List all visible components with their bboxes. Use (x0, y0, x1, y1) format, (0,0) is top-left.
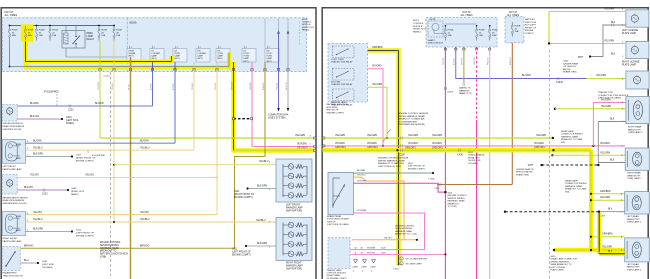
svg-text:S416: S416 (551, 256, 557, 258)
svg-text:VIO/GRN: VIO/GRN (601, 100, 611, 102)
svg-text:PARK/STOP/: PARK/STOP/ (627, 218, 640, 221)
svg-text:2: 2 (362, 270, 363, 272)
svg-text:FLOW/INTAKE AIR: FLOW/INTAKE AIR (398, 120, 417, 123)
svg-text:WIRING HARNESS, NEAR: WIRING HARNESS, NEAR (398, 115, 425, 118)
svg-text:YEL/GRN: YEL/GRN (601, 106, 611, 108)
svg-text:CONNECTOR WIRING: CONNECTOR WIRING (561, 134, 583, 136)
svg-text:(ENGINE CONTROL: (ENGINE CONTROL (395, 226, 415, 228)
svg-text:C223: C223 (68, 110, 74, 112)
svg-text:BATTERY: BATTERY (525, 18, 535, 21)
svg-text:C2280: C2280 (103, 76, 110, 78)
svg-text:WIRING HARNESS,: WIRING HARNESS, (551, 260, 570, 263)
svg-text:VIO/GRN: VIO/GRN (335, 143, 345, 145)
svg-text:WHT/LTB: WHT/LTB (286, 81, 288, 90)
svg-text:G301: G301 (66, 117, 72, 119)
svg-text:(FET): (FET) (174, 58, 179, 60)
svg-text:BLK: BLK (608, 209, 613, 211)
svg-text:HARNESS, NEAR: HARNESS, NEAR (100, 247, 119, 250)
svg-text:REAR VIEW MIRROR: REAR VIEW MIRROR (3, 199, 25, 202)
svg-text:(LEFT SIDE: (LEFT SIDE (42, 264, 54, 266)
svg-text:YEL/GRN: YEL/GRN (408, 135, 418, 137)
svg-text:CONTROL MODULE: CONTROL MODULE (327, 273, 347, 275)
svg-text:(RIGHT FRONT OF: (RIGHT FRONT OF (76, 158, 96, 160)
svg-text:46: 46 (361, 248, 363, 250)
svg-text:BLK: BLK (610, 119, 615, 121)
svg-text:(ENGINE CONTROL SENSOR: (ENGINE CONTROL SENSOR (378, 158, 409, 160)
svg-text:LAMP: LAMP (174, 55, 180, 58)
svg-text:YEL/GRN: YEL/GRN (604, 9, 614, 11)
svg-text:BREAKOUT TO: BREAKOUT TO (100, 250, 117, 253)
svg-text:FUSE: FUSE (39, 30, 45, 32)
svg-text:YEL/VIO: YEL/VIO (33, 212, 42, 214)
svg-text:BL/GRN: BL/GRN (33, 140, 42, 142)
svg-text:(MATED TO: (MATED TO (459, 87, 471, 90)
svg-text:FUSE: FUSE (101, 30, 107, 32)
svg-text:YEL/VIO: YEL/VIO (384, 237, 392, 239)
svg-text:BRN/VIO: BRN/VIO (263, 82, 265, 90)
svg-text:ENGINE CONTROL: ENGINE CONTROL (100, 242, 121, 244)
svg-text:BLK/GRN: BLK/GRN (257, 185, 267, 187)
svg-text:(ENGINE CONTROL SENSOR: (ENGINE CONTROL SENSOR (398, 113, 429, 115)
svg-text:BLK/YEL: BLK/YEL (30, 116, 40, 118)
svg-text:S107: S107 (76, 155, 82, 157)
svg-text:TURN: TURN (16, 216, 22, 218)
svg-text:BLK/GRN: BLK/GRN (33, 229, 43, 231)
svg-text:PASSENGER EXTERIOR: PASSENGER EXTERIOR (3, 196, 29, 199)
svg-text:NEAR BREAKOUT TO: NEAR BREAKOUT TO (551, 263, 573, 266)
svg-text:HARNESS, NEAR: HARNESS, NEAR (395, 230, 412, 233)
svg-text:ENGINE: ENGINE (525, 30, 534, 32)
svg-text:W/ CREW CHIEF: W/ CREW CHIEF (406, 263, 423, 265)
svg-text:(W ADJUSTABLE: (W ADJUSTABLE (468, 154, 485, 157)
svg-text:PLATE LAMP): PLATE LAMP) (551, 269, 565, 272)
svg-text:(W/F RAPTOR): (W/F RAPTOR) (286, 209, 302, 212)
svg-text:SIS): SIS) (561, 142, 565, 144)
svg-text:LEFT LICENSE: LEFT LICENSE (622, 30, 639, 32)
svg-text:(LEFT FRONT OF: (LEFT FRONT OF (232, 251, 251, 253)
svg-text:(C4B): (C4B) (100, 257, 106, 259)
svg-text:C280: C280 (399, 155, 405, 157)
svg-text:WHT: WHT (578, 57, 584, 59)
svg-text:ENGINE COMPT): ENGINE COMPT) (232, 254, 251, 256)
svg-text:CONNECTOR, PWD MODULE: CONNECTOR, PWD MODULE (598, 95, 629, 97)
svg-text:YEL/BLU: YEL/BLU (259, 161, 269, 163)
svg-text:(UNDER REAR OF: (UNDER REAR OF (516, 168, 535, 171)
svg-text:LAMP: LAMP (266, 57, 272, 60)
svg-text:G201: G201 (42, 261, 48, 263)
svg-text:YEL/GRN: YEL/GRN (367, 135, 377, 137)
svg-text:YEL/GRN: YEL/GRN (600, 152, 610, 154)
svg-text:C4002: C4002 (393, 269, 400, 271)
svg-text:2: 2 (353, 270, 354, 272)
svg-text:(BCM): (BCM) (130, 22, 137, 25)
svg-text:JUNCTION BOX: JUNCTION BOX (428, 43, 444, 45)
svg-text:2: 2 (27, 148, 28, 150)
svg-text:TO C144): TO C144) (448, 206, 457, 208)
svg-text:3: 3 (27, 141, 28, 143)
svg-text:FUSE: FUSE (479, 30, 485, 32)
svg-text:GRY/YEL: GRY/YEL (462, 57, 464, 65)
svg-text:W/ COLUMN SHIFTER: W/ COLUMN SHIFTER (406, 258, 428, 260)
svg-text:PLATE LAMP: PLATE LAMP (622, 32, 636, 35)
svg-text:OF VEHICLE: OF VEHICLE (563, 66, 577, 68)
svg-text:YEL/GRN: YEL/GRN (432, 135, 442, 137)
svg-text:YEL/BLU: YEL/BLU (112, 82, 114, 90)
svg-text:RIGHT REAR: RIGHT REAR (628, 126, 642, 129)
svg-text:SENSOR WIRING: SENSOR WIRING (395, 228, 412, 230)
svg-text:TURN: TURN (16, 144, 22, 146)
svg-text:BL/GRN: BL/GRN (522, 75, 531, 77)
svg-text:FUSE: FUSE (12, 30, 18, 32)
svg-text:HARNESS: HARNESS (459, 89, 470, 92)
svg-text:(FET): (FET) (243, 61, 248, 63)
svg-text:MODULE: MODULE (413, 26, 423, 28)
svg-text:LEFT REAR: LEFT REAR (627, 215, 639, 218)
svg-text:YEL/BLU: YEL/BLU (33, 147, 43, 149)
svg-text:BRAKE PEDAL: BRAKE PEDAL (327, 215, 342, 218)
svg-text:VIO/ORG: VIO/ORG (357, 180, 367, 182)
svg-text:ENGINE COMPT): ENGINE COMPT) (408, 168, 425, 170)
svg-text:RIGHT FRONT: RIGHT FRONT (3, 238, 19, 240)
svg-text:JUNCTION: JUNCTION (525, 22, 536, 24)
svg-text:HARNESS, NEAR: HARNESS, NEAR (561, 135, 578, 138)
svg-text:G404: G404 (563, 61, 569, 63)
svg-text:TEMPERATURE SENSOR): TEMPERATURE SENSOR) (398, 123, 425, 126)
svg-text:10A: 10A (479, 34, 483, 37)
svg-text:BLU: BLU (24, 260, 29, 262)
svg-text:JUNCTION BOX) S428: JUNCTION BOX) S428 (378, 166, 402, 168)
svg-text:TRAILER TOW RELAY: TRAILER TOW RELAY (331, 83, 353, 86)
svg-text:VIO/GRN: VIO/GRN (357, 210, 367, 212)
svg-text:BLK/VIO: BLK/VIO (24, 187, 33, 189)
svg-text:YEL/VIO: YEL/VIO (30, 175, 39, 177)
svg-text:(FET): (FET) (266, 61, 271, 63)
svg-text:PARK/TURN LAMP: PARK/TURN LAMP (3, 168, 23, 171)
svg-text:C4088: C4088 (352, 267, 358, 269)
svg-text:TRAILER TOW RELAY: TRAILER TOW RELAY (331, 60, 353, 63)
svg-text:GRN/ORG: GRN/ORG (405, 148, 416, 150)
svg-text:PARK/STOP/: PARK/STOP/ (627, 174, 640, 177)
svg-text:VIO/GRN: VIO/GRN (600, 143, 610, 145)
svg-text:C4089: C4089 (361, 267, 367, 269)
svg-text:10A: 10A (101, 34, 105, 37)
svg-text:VIO/GRY: VIO/GRY (443, 57, 445, 65)
svg-text:YEL/BLU: YEL/BLU (140, 219, 150, 221)
svg-text:ENGINE COMPT): ENGINE COMPT) (327, 112, 345, 114)
svg-text:ALL TIMES: ALL TIMES (507, 14, 519, 17)
svg-text:COLUMN): COLUMN) (468, 163, 478, 165)
svg-text:PANEL): PANEL) (302, 28, 309, 31)
svg-text:HAZARD/PED: HAZARD/PED (3, 272, 18, 275)
svg-text:VIO/ORG: VIO/ORG (372, 65, 382, 67)
svg-text:G302: G302 (71, 188, 77, 190)
svg-text:(LEFT KICK: (LEFT KICK (66, 120, 79, 122)
svg-text:BL/GRN: BL/GRN (151, 83, 153, 90)
svg-text:PARK/STOP/: PARK/STOP/ (628, 128, 641, 131)
svg-text:RELAY: RELAY (87, 38, 95, 41)
svg-text:RIGHT LICENSE: RIGHT LICENSE (622, 62, 640, 64)
svg-text:BREAKOUT TO BATTERY: BREAKOUT TO BATTERY (378, 162, 405, 165)
svg-text:BL/GRN: BL/GRN (30, 103, 39, 105)
svg-text:NEAR C137): NEAR C137) (459, 92, 472, 95)
svg-text:ENGINE COMPT): ENGINE COMPT) (234, 197, 253, 199)
svg-text:IF EQUIPPED: IF EQUIPPED (44, 92, 59, 94)
svg-text:YEL/BLU: YEL/BLU (140, 147, 150, 149)
svg-text:7.1 S/B: 7.1 S/B (428, 179, 435, 181)
svg-text:(DRIVER'S DOOR): (DRIVER'S DOOR) (3, 129, 22, 131)
svg-text:YEL/GRN: YEL/GRN (602, 246, 612, 248)
svg-text:S142: S142 (76, 230, 82, 232)
svg-text:TRAILER TOW: TRAILER TOW (598, 91, 614, 94)
svg-text:BL/GRN: BL/GRN (95, 103, 104, 105)
svg-text:BATTERY JUNCTION BOX: BATTERY JUNCTION BOX (100, 253, 129, 256)
svg-text:YEL/GRN: YEL/GRN (295, 135, 305, 137)
svg-text:PANEL): PANEL) (66, 122, 74, 125)
svg-text:(REAR LAMP: (REAR LAMP (565, 180, 578, 183)
svg-text:(FET): (FET) (197, 58, 202, 60)
svg-text:LAMP: LAMP (217, 55, 223, 58)
svg-text:YEL/VIO: YEL/VIO (140, 212, 149, 214)
svg-text:S101: S101 (232, 249, 238, 251)
svg-text:15A: 15A (52, 34, 56, 37)
svg-text:BODY: BODY (413, 20, 420, 22)
svg-text:(REAR LAMP: (REAR LAMP (561, 130, 574, 133)
svg-text:DRIVER EXTERIOR: DRIVER EXTERIOR (3, 123, 23, 125)
svg-text:2: 2 (401, 263, 402, 265)
svg-text:(PASSENGER'S DOOR): (PASSENGER'S DOOR) (3, 202, 27, 205)
svg-text:(REAR LAMP CONNECTOR: (REAR LAMP CONNECTOR (551, 258, 578, 261)
svg-text:BOX (LEFT: BOX (LEFT (525, 25, 537, 27)
svg-text:2: 2 (371, 270, 372, 272)
svg-text:BRN/WHT: BRN/WHT (510, 56, 512, 65)
svg-text:BLK: BLK (611, 54, 616, 56)
svg-text:GRN/ORG: GRN/ORG (335, 147, 346, 149)
svg-text:10A: 10A (492, 34, 496, 37)
svg-text:VEHICLE ABOVE: VEHICLE ABOVE (516, 171, 533, 174)
svg-text:BLK/GRN: BLK/GRN (33, 154, 43, 156)
svg-text:YEL/GRN: YEL/GRN (372, 84, 382, 86)
svg-text:ABOVE: ABOVE (563, 68, 571, 71)
svg-text:VIO/GRN: VIO/GRN (534, 143, 544, 145)
svg-text:FUSE: FUSE (28, 30, 34, 32)
svg-text:(LEFT FRONT OF: (LEFT FRONT OF (408, 166, 426, 168)
svg-text:PARK/TURN LAMP: PARK/TURN LAMP (3, 240, 23, 243)
svg-text:PARK: PARK (16, 157, 22, 160)
svg-text:PANEL): PANEL) (71, 193, 79, 196)
svg-text:ENGINE COMPT): ENGINE COMPT) (76, 161, 94, 163)
svg-text:LAMP: LAMP (197, 55, 203, 58)
svg-text:GRN/BRN: GRN/BRN (600, 191, 611, 193)
svg-text:(LEFT FRONT OF: (LEFT FRONT OF (76, 233, 94, 235)
svg-text:(RIGHT KICK: (RIGHT KICK (71, 191, 85, 193)
svg-text:BREAKOUT TO CHAS: BREAKOUT TO CHAS (561, 138, 583, 141)
svg-text:RIGHT FRONT: RIGHT FRONT (286, 263, 302, 265)
svg-text:1: 1 (401, 258, 402, 260)
svg-text:BL/GRN: BL/GRN (357, 170, 366, 172)
svg-text:PARK/STOP/: PARK/STOP/ (627, 266, 640, 269)
svg-text:YEL/GRN: YEL/GRN (600, 197, 610, 199)
svg-text:VIO/GRN: VIO/GRN (474, 57, 476, 65)
svg-text:SWITCH: SWITCH (327, 221, 336, 223)
svg-text:VIO/GRN: VIO/GRN (367, 143, 377, 145)
svg-text:LINES SYSTEM: LINES SYSTEM (268, 117, 285, 120)
svg-text:YEL/VIO: YEL/VIO (215, 82, 217, 90)
svg-text:FUSE: FUSE (492, 30, 498, 32)
svg-text:YEL/GRN: YEL/GRN (335, 135, 345, 137)
svg-text:44: 44 (355, 248, 357, 250)
svg-text:MARKER LAMP: MARKER LAMP (286, 206, 303, 209)
svg-text:1: 1 (27, 230, 28, 232)
svg-text:YEL/GRN: YEL/GRN (596, 75, 606, 77)
svg-text:MARKER LAMP: MARKER LAMP (286, 264, 303, 267)
svg-text:PARK: PARK (16, 229, 22, 232)
svg-text:HARNESS, NEAR: HARNESS, NEAR (565, 185, 582, 188)
svg-text:30A: 30A (28, 34, 32, 37)
svg-text:ALL TIMES: ALL TIMES (5, 14, 18, 17)
svg-text:WIRING HARNESS, NEAR: WIRING HARNESS, NEAR (378, 159, 405, 162)
svg-text:OF DASH): OF DASH) (42, 266, 53, 269)
svg-text:REAR VIEW MIRROR: REAR VIEW MIRROR (3, 125, 25, 128)
svg-text:TRACTION SWITCH: TRACTION SWITCH (3, 274, 24, 277)
svg-text:(FET): (FET) (217, 58, 222, 60)
svg-text:PANEL): PANEL) (413, 31, 421, 34)
svg-text:BREAKOUT: BREAKOUT (448, 202, 460, 205)
svg-text:(ENGINE CONTROL: (ENGINE CONTROL (448, 195, 468, 197)
svg-text:FUSE: FUSE (52, 30, 58, 32)
svg-text:BRN/VIO: BRN/VIO (24, 245, 34, 247)
svg-text:BLK/GRN: BLK/GRN (257, 243, 267, 245)
svg-text:S412: S412 (468, 152, 474, 154)
svg-text:BREAKOUT TO MASS AIR: BREAKOUT TO MASS AIR (398, 118, 425, 121)
svg-text:BOX (BJB): BOX (BJB) (327, 107, 338, 109)
svg-text:GRN/BRN: GRN/BRN (602, 234, 613, 236)
svg-text:YEL/GRN: YEL/GRN (98, 81, 100, 90)
svg-text:(UNDER REAR: (UNDER REAR (563, 62, 579, 65)
svg-text:TELESCOPE: TELESCOPE (468, 160, 481, 162)
svg-text:2: 2 (27, 220, 28, 222)
svg-text:VIO/GRN: VIO/GRN (250, 82, 252, 90)
svg-text:YEL/GRN: YEL/GRN (536, 135, 546, 137)
svg-text:HARNESS, NEAR: HARNESS, NEAR (448, 200, 465, 203)
svg-text:(LEFT SIDE OF DASH): (LEFT SIDE OF DASH) (327, 223, 349, 226)
svg-text:TURN LAMP 1: TURN LAMP 1 (627, 177, 642, 180)
svg-text:10A: 10A (515, 30, 519, 33)
svg-text:SENSOR WIRING: SENSOR WIRING (100, 245, 119, 247)
svg-text:POSITION/STOPLAMP: POSITION/STOPLAMP (327, 218, 349, 221)
svg-text:10A: 10A (116, 34, 120, 37)
svg-text:(RIGHT REAR: (RIGHT REAR (327, 274, 341, 277)
svg-text:YEL/VIO: YEL/VIO (357, 174, 366, 176)
svg-text:30A: 30A (12, 34, 16, 37)
svg-text:(RIGHT FRONT OF: (RIGHT FRONT OF (234, 194, 255, 196)
svg-text:VIO/GRN: VIO/GRN (367, 248, 376, 250)
svg-text:YEL/GRN: YEL/GRN (604, 41, 614, 43)
svg-text:SENSOR WIRING: SENSOR WIRING (448, 198, 465, 200)
svg-text:CONTROL: CONTROL (413, 23, 424, 25)
svg-text:BATTERY JUNCTION: BATTERY JUNCTION (327, 103, 349, 106)
svg-text:CONNECTOR WIRING: CONNECTOR WIRING (565, 183, 587, 185)
svg-text:LEFT FRONT: LEFT FRONT (3, 166, 17, 168)
svg-text:C126: C126 (381, 248, 386, 250)
svg-text:SMART: SMART (428, 39, 436, 42)
svg-text:1: 1 (27, 155, 28, 157)
svg-text:RIGHT REAR: RIGHT REAR (627, 172, 641, 175)
svg-text:GRN/BRN: GRN/BRN (372, 47, 383, 49)
svg-text:C405: C405 (457, 155, 463, 157)
svg-text:BRN/VIO: BRN/VIO (140, 245, 150, 247)
svg-text:BL/ORG: BL/ORG (453, 58, 455, 65)
svg-text:FRONT OF: FRONT OF (525, 27, 537, 29)
svg-text:BLK: BLK (610, 160, 615, 162)
svg-text:YEL/BLK: YEL/BLK (192, 82, 194, 90)
svg-text:GRY/WHT: GRY/WHT (231, 81, 233, 90)
svg-text:VIO/LTB: VIO/LTB (277, 82, 279, 90)
svg-text:LEFT REAR: LEFT REAR (627, 263, 639, 266)
svg-text:TURN LAMP 1: TURN LAMP 1 (627, 221, 642, 224)
svg-text:(FRONT OF: (FRONT OF (327, 110, 340, 112)
svg-text:TRAILER LAMP: TRAILER LAMP (327, 269, 343, 272)
svg-text:C155: C155 (434, 188, 440, 190)
svg-text:GRN/ORG: GRN/ORG (367, 147, 378, 149)
svg-text:PNK/LTG: PNK/LTG (487, 57, 489, 65)
svg-text:SPARE TIRE): SPARE TIRE) (516, 173, 529, 176)
svg-text:BL/GRN: BL/GRN (140, 140, 149, 142)
svg-text:ALL TIMES: ALL TIMES (460, 14, 472, 17)
svg-text:BREAKOUT TO CHAS: BREAKOUT TO CHAS (565, 188, 587, 191)
svg-text:BL/GRN: BL/GRN (173, 83, 175, 90)
svg-text:VIO/GRN: VIO/GRN (432, 143, 442, 145)
svg-text:FUSE: FUSE (116, 30, 122, 32)
svg-text:COMPT): COMPT) (525, 33, 534, 35)
svg-text:DK YEL: DK YEL (128, 84, 130, 90)
svg-text:C223: C223 (42, 194, 48, 196)
svg-text:YEL/BLU: YEL/BLU (33, 219, 43, 221)
svg-text:(BCM): (BCM) (430, 19, 436, 21)
svg-text:LAMP: LAMP (151, 55, 157, 58)
svg-text:GRY/WHT: GRY/WHT (297, 148, 308, 150)
svg-text:YEL/BLU: YEL/BLU (256, 220, 266, 222)
svg-text:SPARE TIRE): SPARE TIRE) (563, 71, 577, 74)
svg-text:YEL/VIO: YEL/VIO (85, 175, 94, 177)
svg-text:GRN/ORG: GRN/ORG (534, 147, 545, 149)
svg-text:3: 3 (27, 213, 28, 215)
svg-text:SIGNAL: SIGNAL (128, 52, 136, 55)
svg-text:PEDAL W/O: PEDAL W/O (468, 156, 480, 159)
svg-text:WHT: WHT (528, 165, 534, 167)
svg-text:VIO/GRN: VIO/GRN (297, 143, 307, 145)
svg-text:15A: 15A (448, 34, 452, 37)
svg-text:GRN/ORG: GRN/ORG (432, 148, 443, 150)
svg-text:LAMP: LAMP (243, 57, 249, 60)
svg-text:TURN LAMP 2: TURN LAMP 2 (627, 268, 642, 271)
svg-text:ENGINE COMPT): ENGINE COMPT) (76, 236, 94, 238)
svg-text:C4035: C4035 (556, 82, 563, 84)
svg-text:PLATE LAMP: PLATE LAMP (622, 63, 636, 66)
svg-text:SIS): SIS) (565, 191, 569, 193)
svg-text:LEFT LICENSE: LEFT LICENSE (551, 267, 566, 269)
svg-text:(RIGHT KICK: (RIGHT KICK (413, 29, 427, 31)
svg-text:FUSE: FUSE (515, 26, 521, 28)
svg-text:LEFT FRONT: LEFT FRONT (286, 205, 301, 207)
svg-text:C2208: C2208 (447, 92, 454, 94)
svg-text:TURN LAMP 2: TURN LAMP 2 (628, 131, 643, 134)
svg-text:BREAKOUT TO C-114): BREAKOUT TO C-114) (395, 233, 417, 236)
svg-text:S101: S101 (234, 191, 240, 193)
svg-text:VIO/GRN: VIO/GRN (408, 143, 418, 145)
svg-text:(W/F RAPTOR): (W/F RAPTOR) (286, 267, 302, 270)
svg-text:C4090: C4090 (370, 267, 376, 269)
svg-text:15A: 15A (39, 34, 43, 37)
